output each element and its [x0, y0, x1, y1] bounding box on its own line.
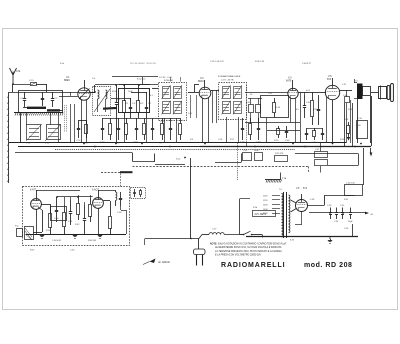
wire dotted drop	[237, 143, 239, 180]
svg-text:5000: 5000	[254, 150, 259, 152]
svg-text:V.6: V.6	[296, 187, 300, 190]
svg-text:B.TA OM: B.TA OM	[164, 79, 173, 82]
IF transformer T1	[159, 83, 187, 121]
output transformer T3	[354, 81, 363, 100]
wire box drops	[51, 206, 127, 235]
svg-text:50μF: 50μF	[348, 221, 353, 223]
wire bus heater dotted	[55, 149, 295, 151]
svg-text:C.47: C.47	[315, 149, 320, 151]
wire T1 drops	[165, 118, 177, 143]
capacitor C44	[285, 126, 290, 142]
wire phono dash left	[101, 173, 121, 188]
svg-text:V.2: V.2	[200, 77, 204, 80]
svg-text:R.33: R.33	[276, 107, 281, 109]
resistor R29	[275, 153, 288, 162]
label V3	[286, 77, 292, 83]
capacitor C5	[115, 95, 121, 112]
svg-text:6V6: 6V6	[327, 79, 332, 81]
resistor R12	[249, 118, 252, 140]
wire volume corner	[215, 154, 242, 163]
svg-text:LE RESISTENZE SONO IN Ω, SU OG: LE RESISTENZE SONO IN Ω, SU OGNI VALVOLA…	[215, 246, 282, 249]
wire tone link	[295, 154, 359, 166]
svg-text:100K: 100K	[128, 91, 133, 93]
capacitor C62	[83, 205, 86, 234]
svg-text:P.U.: P.U.	[15, 226, 19, 228]
capacitor C7	[145, 98, 152, 118]
trimmer C3	[51, 92, 58, 107]
svg-text:C.M.: C.M.	[16, 71, 21, 73]
resistor R4	[109, 118, 112, 140]
svg-text:C.55: C.55	[340, 205, 345, 207]
phono ground bus	[26, 234, 126, 236]
svg-text:0.1: 0.1	[150, 95, 154, 97]
resistor R5	[125, 118, 128, 140]
grid coil	[116, 190, 117, 206]
label T1	[159, 77, 181, 82]
wire det grid	[245, 93, 288, 99]
svg-text:0.01: 0.01	[306, 90, 311, 92]
wire mains cord	[145, 235, 209, 239]
svg-text:mod. RD 208: mod. RD 208	[304, 262, 352, 269]
svg-text:C.61: C.61	[68, 221, 73, 223]
svg-text:C.45: C.45	[243, 150, 248, 152]
wire osc upper	[112, 62, 158, 85]
wire v4 drops	[347, 79, 355, 143]
tube V4 6V6	[325, 78, 339, 100]
capacitor C6	[129, 98, 136, 118]
resistor R1	[123, 95, 130, 118]
svg-text:C.26: C.26	[218, 139, 223, 141]
label V8	[92, 189, 99, 192]
wire down left	[190, 158, 192, 239]
wire plug stub	[144, 239, 146, 246]
wire bus AVC	[18, 146, 371, 148]
label T2	[218, 75, 241, 82]
svg-text:NOTE: SALVO NOTAZIONI IN CONTR: NOTE: SALVO NOTAZIONI IN CONTRARIO I CAP…	[210, 242, 287, 245]
svg-text:5Y3: 5Y3	[303, 188, 308, 190]
wire osc mid	[111, 89, 158, 99]
svg-text:+B: +B	[370, 214, 373, 216]
wire tuner right drop	[58, 112, 60, 143]
wire bus end arrow	[370, 148, 373, 157]
capacitor C46	[254, 150, 263, 161]
svg-text:C.54: C.54	[334, 221, 339, 223]
svg-text:R.1: R.1	[125, 103, 129, 105]
wire mains bottom bus	[246, 236, 358, 238]
svg-text:V.3: V.3	[288, 77, 292, 80]
title RADIOMARELLI	[221, 262, 285, 269]
label V1	[64, 76, 70, 82]
capacitor C45	[243, 150, 252, 161]
label V6	[296, 187, 308, 190]
tube V1 6BE6	[78, 80, 90, 100]
wire phono top	[36, 190, 115, 193]
svg-text:R.42: R.42	[75, 224, 80, 226]
svg-text:R.2: R.2	[140, 103, 144, 105]
svg-text:5000: 5000	[356, 125, 361, 127]
svg-text:C.16: C.16	[76, 140, 81, 142]
capacitor C50	[343, 95, 350, 103]
wire c52 link	[363, 148, 365, 185]
svg-text:C.49 R.27: C.49 R.27	[302, 63, 312, 65]
svg-text:C.7: C.7	[148, 103, 152, 105]
wire phono in	[33, 207, 43, 233]
svg-text:B.TA ANTENNA ONDE: B.TA ANTENNA ONDE	[218, 75, 241, 78]
capacitor C42	[246, 98, 254, 123]
wire V4 cathode	[327, 97, 333, 143]
wire plate link	[280, 173, 282, 180]
svg-text:6AT6: 6AT6	[286, 80, 292, 83]
svg-text:C.44: C.44	[285, 140, 290, 142]
value labels power	[253, 189, 349, 242]
resistor R40	[46, 207, 52, 234]
capacitor C34	[256, 118, 261, 144]
svg-text:C.4: C.4	[92, 78, 96, 80]
resistor R33	[273, 98, 281, 118]
wire left chassis edge	[7, 92, 9, 183]
svg-text:C.56: C.56	[344, 228, 349, 230]
svg-text:R.17: R.17	[230, 139, 235, 141]
svg-text:C.2: C.2	[54, 98, 58, 100]
wire V2 plate	[211, 90, 219, 92]
wire speaker drop	[345, 96, 372, 146]
wire phono takeoff bar	[120, 171, 133, 173]
wire antenna feed	[12, 83, 47, 92]
junction dots bus	[83, 143, 362, 148]
svg-text:S.1e: S.1e	[176, 159, 181, 161]
wire row1 top	[79, 119, 180, 121]
capacitor C48	[315, 160, 328, 173]
wire filter rail	[309, 212, 373, 216]
svg-text:RADIOMARELLI: RADIOMARELLI	[221, 262, 285, 269]
wire T1 out	[188, 85, 199, 93]
resistor R3	[85, 120, 90, 145]
svg-text:R.9: R.9	[190, 139, 194, 141]
capacitor C33	[240, 118, 245, 144]
ferrite coil bar L1	[23, 107, 46, 109]
svg-text:R.25: R.25	[274, 140, 279, 142]
label V4	[327, 75, 332, 81]
wire row2 top	[307, 128, 323, 130]
capacitor C60	[54, 200, 59, 222]
oscillator coil box	[93, 87, 111, 116]
capacitor C20	[151, 118, 154, 140]
capacitor C47	[315, 143, 328, 158]
svg-text:S.2a C.22: S.2a C.22	[137, 79, 145, 81]
capacitor C41	[317, 95, 320, 125]
wire phono dash right	[133, 167, 309, 173]
resistor R16	[313, 128, 316, 140]
svg-text:C.TO - M.TE: C.TO - M.TE	[221, 80, 234, 82]
ground g2	[73, 234, 77, 239]
filter cap C54	[334, 208, 339, 224]
filter cap C55	[340, 205, 345, 219]
svg-text:E LA PRESA CON VOLTMETRO 20000: E LA PRESA CON VOLTMETRO 20000 Ω/V.	[215, 254, 262, 257]
svg-text:R.28: R.28	[344, 119, 349, 121]
wire bus gnd left	[15, 153, 185, 165]
label V2	[198, 77, 204, 83]
svg-text:V.1: V.1	[66, 76, 70, 79]
capacitor C52	[345, 183, 363, 196]
tube V8 6AQ5	[93, 192, 104, 208]
label under box	[30, 250, 75, 252]
svg-text:R.31: R.31	[344, 199, 349, 201]
svg-text:6BA6: 6BA6	[198, 80, 204, 83]
resistor R6	[143, 118, 146, 140]
IF transformer T2	[219, 83, 247, 120]
capacitor C37	[305, 128, 308, 140]
capacitor C21	[169, 118, 172, 140]
label al girad	[143, 259, 171, 265]
svg-text:C.51: C.51	[358, 118, 363, 120]
ferrite coil bar L2	[47, 109, 63, 111]
svg-text:C.57: C.57	[212, 229, 217, 231]
svg-text:C.65: C.65	[70, 250, 75, 252]
resistor R42	[75, 198, 80, 226]
wire V3 out	[298, 92, 312, 95]
svg-text:R.29 47K: R.29 47K	[275, 153, 284, 155]
svg-text:125V: 125V	[263, 200, 268, 202]
svg-text:S.1a: S.1a	[60, 63, 65, 65]
wire choke out	[224, 234, 243, 236]
svg-text:C.60: C.60	[54, 218, 59, 220]
resistor R2	[137, 95, 145, 118]
label S1e	[176, 157, 186, 161]
capacitor C56	[344, 224, 353, 237]
svg-text:C.52 0.05: C.52 0.05	[346, 183, 356, 185]
svg-text:C.63: C.63	[117, 212, 122, 214]
wire v3 bottom	[246, 143, 248, 146]
ground mains	[328, 237, 332, 244]
svg-text:AVV. RETE: AVV. RETE	[255, 213, 267, 216]
tube V7 6AV6	[31, 193, 42, 209]
svg-text:AL GIRAD.: AL GIRAD.	[157, 261, 171, 264]
power switch S2	[243, 231, 263, 237]
capacitor C61	[68, 200, 73, 225]
svg-text:LA TENSIONE MISURATA TRA I PUN: LA TENSIONE MISURATA TRA I PUNTI INDICAT…	[215, 250, 282, 253]
capacitor C17	[100, 118, 105, 144]
svg-text:T.4: T.4	[279, 189, 283, 191]
wire loop phono	[51, 207, 67, 221]
wire speaker link	[358, 93, 379, 144]
wire osc drops	[117, 112, 147, 143]
coil bar L3	[103, 107, 117, 110]
svg-text:C.51: C.51	[342, 84, 347, 86]
capacitor C15	[29, 80, 37, 86]
wire tube cathode drops	[37, 208, 99, 234]
aux dashed box	[131, 188, 146, 199]
wire top feed	[9, 84, 95, 93]
svg-text:R.18 C.39: R.18 C.39	[255, 61, 265, 63]
wire osc loop	[119, 85, 151, 113]
wire rect cathode	[295, 212, 344, 226]
trimmer C1	[20, 92, 26, 107]
wire v8 out	[103, 201, 110, 211]
chassis plate	[265, 177, 287, 183]
gang link dashed	[65, 105, 67, 132]
speaker LS	[379, 84, 394, 102]
resistor R43	[89, 198, 92, 222]
tuner box	[19, 91, 63, 113]
wire bus B+	[9, 142, 346, 144]
mains taps	[263, 196, 280, 216]
svg-text:P.TA: P.TA	[282, 177, 287, 180]
svg-text:110V: 110V	[263, 196, 268, 198]
svg-text:C.15: C.15	[29, 80, 34, 82]
resistor R20	[311, 92, 319, 125]
rectifier tube V6 5Y3	[296, 194, 308, 212]
capacitor C18	[115, 118, 120, 145]
capacitor C16	[76, 120, 81, 142]
coil can L10	[26, 124, 42, 145]
avv box	[253, 211, 276, 217]
power transformer T4	[282, 192, 290, 238]
wire phono coupling	[41, 195, 92, 207]
svg-text:0.5: 0.5	[296, 109, 300, 111]
svg-text:C.5: C.5	[117, 99, 121, 101]
filter cap C56v	[348, 208, 353, 224]
capacitor C38	[321, 128, 324, 140]
trimmer C2	[41, 92, 44, 106]
wire power left	[240, 199, 251, 235]
wire osc top	[95, 84, 158, 95]
coil can L11	[45, 124, 61, 145]
resistor R28	[344, 119, 350, 141]
phono input jack	[15, 226, 34, 241]
svg-text:R.47: R.47	[30, 250, 35, 252]
resistor R41	[63, 205, 66, 234]
tuner chassis hatch	[14, 113, 63, 116]
wire af link	[312, 92, 326, 94]
phono amp box	[23, 187, 130, 246]
wire B+ out	[308, 196, 355, 206]
svg-text:C.58: C.58	[310, 199, 315, 201]
svg-text:6.3V: 6.3V	[290, 240, 295, 242]
filter cap C53	[327, 205, 332, 219]
svg-text:RUOTA CAMBIO TENSIONE: RUOTA CAMBIO TENSIONE	[130, 62, 157, 65]
ground g1	[40, 234, 44, 239]
dotted vertical	[246, 85, 248, 143]
wire V2 cathode	[203, 90, 217, 143]
label box bottom	[52, 240, 96, 242]
wire gang drops	[71, 104, 75, 143]
svg-text:C.64 0.02: C.64 0.02	[52, 240, 62, 242]
title model	[304, 262, 352, 269]
capacitor C19	[133, 118, 138, 144]
wire V1 cathode	[82, 100, 87, 144]
wire af row2	[267, 130, 300, 132]
wire V1 plate	[90, 85, 96, 93]
wire V4 plate	[340, 90, 352, 97]
capacitor C43	[256, 98, 261, 123]
wire rect plates	[291, 200, 297, 212]
mains choke	[209, 229, 224, 235]
resistor R44	[109, 210, 112, 234]
resistor R8	[179, 118, 182, 140]
ground g3	[98, 234, 102, 239]
capacitor C40	[303, 95, 311, 118]
mains plug	[194, 239, 206, 266]
svg-text:T.5: T.5	[355, 81, 359, 83]
svg-text:C.31: C.31	[268, 93, 273, 95]
svg-text:S.2b: S.2b	[253, 207, 258, 209]
tube V2 6BA6	[199, 80, 211, 99]
svg-text:6BE6: 6BE6	[64, 80, 70, 82]
resistor R25	[274, 126, 280, 142]
wire af row	[245, 92, 301, 143]
wire tuner bottom	[21, 112, 51, 143]
svg-text:C.53: C.53	[327, 205, 332, 207]
resistor R7	[159, 118, 164, 145]
svg-text:50: 50	[250, 94, 253, 96]
label L60	[188, 95, 197, 118]
antenna	[10, 68, 22, 84]
wire T2 drops	[227, 117, 239, 143]
wire V1 grid	[59, 92, 78, 97]
svg-text:V.5: V.5	[328, 75, 332, 78]
label V7	[30, 189, 37, 192]
svg-text:140V: 140V	[263, 204, 268, 206]
capacitor C63	[117, 192, 122, 214]
svg-text:R.46 1M: R.46 1M	[88, 240, 96, 242]
speaker magnet	[363, 87, 371, 96]
wire det box	[261, 96, 289, 118]
svg-text:6.AT7: 6.AT7	[30, 189, 37, 192]
value labels top band	[60, 61, 353, 144]
svg-text:C.6: C.6	[132, 103, 136, 105]
capacitor C51 box	[356, 118, 368, 139]
svg-text:C.29 C.30 4.7K: C.29 C.30 4.7K	[210, 61, 224, 63]
detector tube V3 6AT6	[288, 80, 298, 99]
note text	[210, 242, 287, 256]
